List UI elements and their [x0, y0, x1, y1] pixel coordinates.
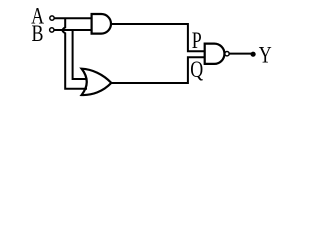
input terminal B — [50, 28, 54, 32]
svg-text:P: P — [192, 29, 202, 54]
output terminal dot Y — [251, 52, 256, 57]
wire A to AND gate — [54, 17, 91, 19]
svg-text:Q: Q — [190, 58, 203, 83]
input terminal A — [50, 16, 54, 20]
wire branch from B down to OR upper input — [73, 30, 87, 79]
wire B to AND gate — [54, 29, 91, 31]
svg-text:Y: Y — [259, 43, 272, 68]
NAND gate U3 body — [205, 44, 225, 64]
AND gate U1 — [92, 14, 111, 34]
wire NAND output to Y — [230, 53, 252, 55]
svg-text:B: B — [32, 22, 44, 47]
wire branch from A down to OR lower input (hop over B wire) — [63, 18, 88, 89]
NAND gate U3 inversion bubble — [225, 52, 229, 56]
OR gate U2 — [82, 69, 112, 95]
wire OR output up to NAND input Q — [111, 57, 204, 83]
wire AND output down to NAND input P — [111, 24, 205, 51]
